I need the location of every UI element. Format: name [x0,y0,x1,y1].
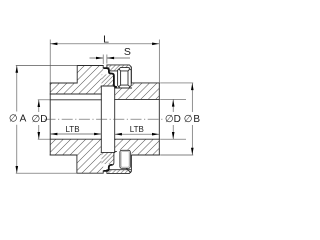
hatch left hub bottom [50,139,103,173]
S ext lines [103,55,107,65]
hatch right hub bottom [115,139,160,155]
S arrows [96,57,103,60]
S dim lines [90,57,131,59]
svg-text:∅ A: ∅ A [9,113,27,124]
hatch band bottom [107,170,131,174]
hatch pocket top [102,74,114,86]
left bore lines [50,100,101,139]
right bore lines [115,99,160,139]
svg-text:LTB: LTB [130,125,144,134]
right faces [115,83,160,155]
LTB dim lines [50,133,159,135]
svg-text:LTB: LTB [65,125,79,134]
left face [49,83,51,155]
sleeve top [104,68,117,87]
svg-text:S: S [124,46,131,58]
L dim line [50,43,159,45]
pocket boundary lines [101,86,114,152]
D right dim line [172,99,174,139]
sleeve bottom thick [104,165,113,171]
right body top/bottom [132,83,160,155]
L extension lines [50,40,159,83]
left hub outline bottom [50,155,103,173]
L arrows [50,43,57,46]
D right ext [160,99,186,139]
B dim line [191,83,193,155]
sleeve bottom thin [113,151,117,165]
hatch right hub top [115,83,160,100]
svg-text:∅D: ∅D [32,114,48,125]
LTB left arrows [50,133,57,136]
sleeve block bottom (rounded) [120,150,130,168]
left hub outline top [50,66,103,84]
A arrows [16,66,19,73]
A ext lines [16,66,77,174]
A dim line [16,66,18,174]
B ext [160,83,193,155]
bottom block chamfer to band [126,168,130,172]
LTB right arrows [115,133,122,136]
B arrows [191,83,194,90]
D left dim line [38,100,40,139]
hatch band top [107,65,131,71]
svg-text:∅D: ∅D [165,114,181,125]
sleeve block top [118,68,132,88]
hatch pocket bottom [102,152,114,164]
D left arrows [38,100,41,107]
D right arrows [172,99,175,106]
right rim band top [107,65,131,83]
left keyway line [50,93,101,95]
left inner face through bore [100,86,102,152]
D left ext [38,100,50,139]
right rim band bottom [107,155,131,173]
hatch left hub top [50,66,103,95]
svg-text:∅ B: ∅ B [184,114,201,125]
groove bottom line top [115,87,132,89]
svg-text:L: L [103,34,109,46]
centerline [45,118,165,120]
